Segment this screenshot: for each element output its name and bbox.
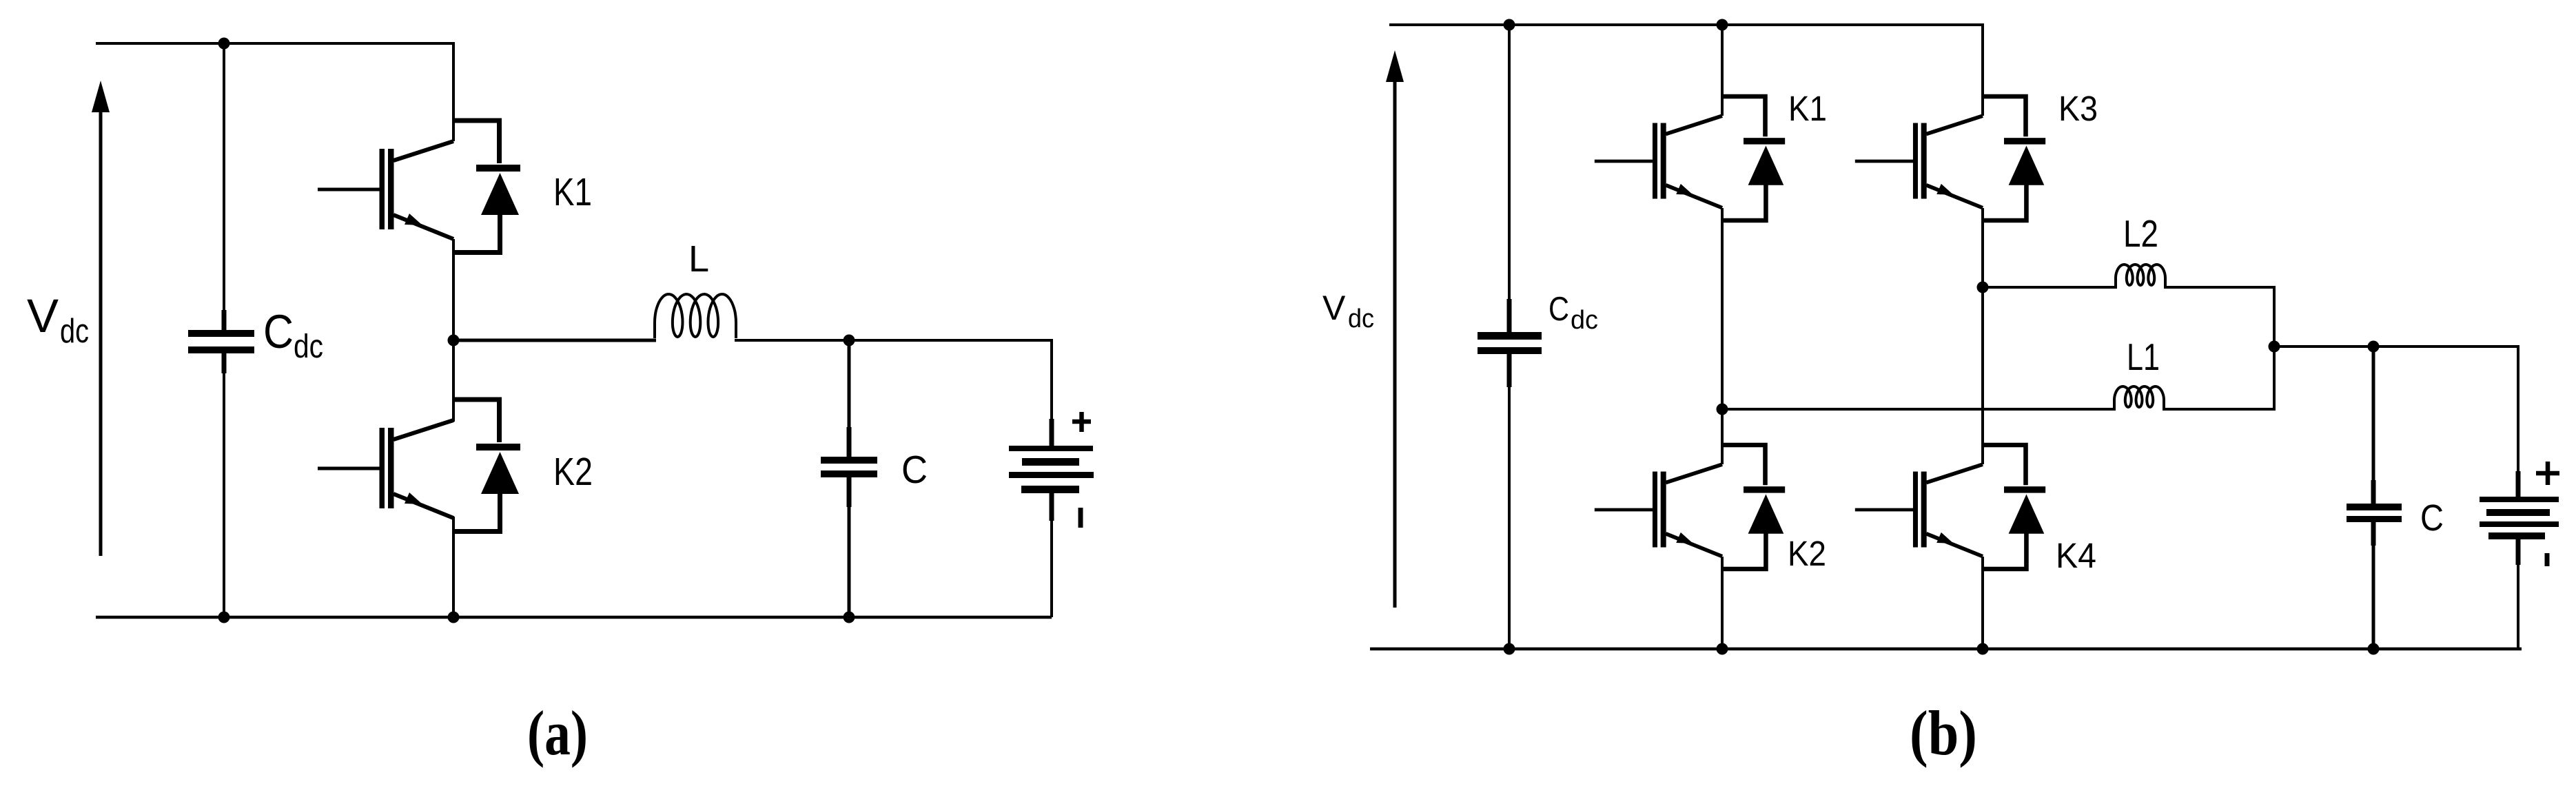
svg-text:K4: K4	[2056, 536, 2096, 575]
svg-text:K1: K1	[553, 170, 592, 214]
wire: mid node to K2 (a)	[452, 340, 455, 422]
inductor L1 (b)	[2114, 386, 2164, 408]
node: K4 emitter bottom (b)	[1977, 643, 1989, 655]
transistor K2 (a)	[318, 400, 520, 532]
svg-text:dc: dc	[60, 313, 89, 350]
wire: Cdc branch top (b)	[1508, 25, 1511, 333]
label battery minus (b)	[2545, 553, 2550, 566]
wire: top rail (a)	[96, 42, 453, 45]
label battery minus (a)	[1079, 508, 1083, 528]
wire: output node to battery (b)	[2274, 346, 2518, 497]
wire: bottom rail (a)	[96, 616, 1052, 619]
wire: C branch top (a)	[848, 340, 851, 457]
svg-text:L2: L2	[2123, 212, 2158, 255]
node: K2 emitter bottom (b)	[1717, 643, 1728, 655]
svg-text:dc: dc	[294, 329, 323, 365]
node: C top (b)	[2368, 341, 2380, 353]
inductor L2 (b)	[2116, 265, 2165, 287]
wire: top rail (b)	[1389, 25, 1983, 116]
transistor K4 (b)	[1855, 445, 2045, 569]
svg-text:K2: K2	[553, 450, 593, 494]
Vdc arrow (a)	[92, 81, 110, 556]
label battery plus (b)	[2536, 462, 2559, 485]
transistor K1 (a)	[318, 121, 520, 253]
node: mid (a)	[448, 335, 460, 346]
wire: K2 emitter (a)	[452, 517, 455, 617]
node: Cdc top (b)	[1504, 19, 1515, 31]
wire: L1 coil to output node (b)	[2163, 346, 2274, 409]
wire: C branch bottom (b)	[2372, 522, 2375, 649]
wire: K2 emitter (b)	[1721, 557, 1724, 649]
svg-text:C: C	[2420, 497, 2444, 539]
wire: K1 emitter to K2 (b)	[1721, 208, 1724, 464]
capacitor C (a)	[821, 427, 877, 507]
node: K2 emitter at bottom rail (a)	[448, 612, 460, 623]
battery (a)	[1009, 419, 1094, 617]
wire: C branch bottom (a)	[848, 477, 851, 617]
capacitor Cdc (a)	[188, 310, 254, 373]
node: C bottom (a)	[844, 612, 855, 623]
svg-text:K3: K3	[2058, 89, 2098, 128]
wire: L2 coil to output node (b)	[2164, 287, 2274, 346]
transistor K2 (b)	[1595, 445, 1785, 569]
capacitor C (b)	[2347, 480, 2402, 546]
inductor L (a)	[655, 294, 736, 338]
wire: mid node to inductor (a)	[453, 339, 656, 342]
wire: Cdc branch bottom (a)	[223, 353, 225, 617]
svg-text:dc: dc	[1348, 304, 1374, 333]
wire: C branch top (b)	[2372, 346, 2375, 504]
svg-text:K2: K2	[1788, 534, 1826, 573]
wire: K1 collector (a)	[452, 42, 455, 141]
node: output (b)	[2269, 341, 2280, 353]
wire: Cdc branch top (a)	[223, 43, 225, 331]
node: mid left leg (b)	[1717, 404, 1728, 415]
wire: K1 emitter to mid node (a)	[452, 239, 455, 340]
svg-text:L1: L1	[2127, 335, 2160, 378]
node: C bottom (b)	[2368, 643, 2380, 655]
svg-text:K1: K1	[1788, 89, 1827, 128]
node: C top (a)	[844, 335, 855, 346]
wire: Cdc branch bottom (b)	[1508, 354, 1511, 649]
node: Cdc top (a)	[218, 38, 230, 50]
node: Cdc bottom (b)	[1504, 643, 1515, 655]
Vdc arrow (b)	[1386, 50, 1404, 608]
svg-text:V: V	[1322, 289, 1346, 327]
wire: K3 emitter to K4 (b)	[1981, 208, 1984, 464]
svg-text:V: V	[27, 289, 59, 342]
transistor K1 (b)	[1595, 96, 1785, 220]
wire: K4 emitter (b)	[1981, 557, 1984, 649]
wire: bottom rail (b)	[1370, 648, 2522, 651]
svg-text:(b): (b)	[1910, 698, 1977, 768]
node: Cdc bottom (a)	[218, 612, 230, 623]
battery (b)	[2480, 471, 2559, 649]
svg-text:C: C	[1548, 291, 1569, 328]
label battery plus (a)	[1072, 412, 1091, 432]
node: K1 top (b)	[1717, 19, 1728, 31]
svg-text:C: C	[901, 448, 928, 492]
wire: K1 collector (b)	[1721, 25, 1724, 116]
wire: L2 tap to coil (b)	[1983, 286, 2117, 289]
transistor K3 (b)	[1855, 96, 2045, 220]
wire: mid node to L1 coil (b)	[1722, 408, 2116, 411]
svg-text:(a): (a)	[527, 698, 588, 768]
node: L2 tap (b)	[1977, 282, 1989, 293]
svg-text:C: C	[263, 305, 294, 358]
svg-text:L: L	[688, 238, 709, 280]
capacitor Cdc (b)	[1478, 299, 1542, 387]
svg-text:dc: dc	[1571, 306, 1598, 335]
wire: inductor to battery top (a)	[735, 340, 1052, 446]
